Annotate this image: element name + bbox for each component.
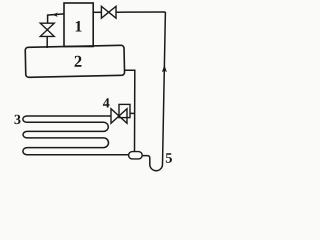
valve V-top (horizontal gate valve) [101, 6, 108, 18]
valve V-left (vertical gate valve) [40, 23, 54, 30]
wire: valve to top-right corner [116, 11, 165, 13]
arrow into box1 (flow left) [52, 13, 58, 17]
wire: box2 right outlet to vertical drop [124, 70, 135, 152]
wire: riser down right side with U-trap 5 [142, 12, 165, 171]
label 1 [76, 21, 82, 32]
wire: box1 left to left valve top [48, 14, 64, 23]
label 4 [103, 98, 110, 107]
label 3 [15, 115, 21, 124]
valve 4 (expansion valve with body square) [111, 109, 119, 124]
box 1 (compressor unit) [64, 3, 93, 47]
label 5 [166, 153, 172, 163]
coil 3 (serpentine evaporator) [23, 116, 129, 155]
arrow up on riser [162, 65, 167, 73]
wire: box1 right to right valve [93, 11, 101, 13]
wire: left valve bottom to box2 top [46, 36, 48, 48]
wire: valve 4 outlet to vertical [130, 112, 135, 114]
label 2 [75, 56, 82, 67]
pill (liquid seal vessel) [129, 152, 143, 159]
box 2 (receiver/condenser vessel) [25, 45, 124, 77]
